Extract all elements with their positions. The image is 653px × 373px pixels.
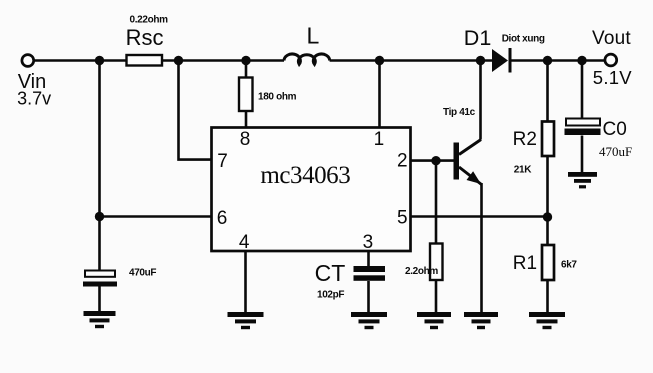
svg-text:5.1V: 5.1V: [593, 67, 632, 88]
svg-text:L: L: [307, 23, 320, 49]
svg-text:mc34063: mc34063: [260, 162, 350, 189]
svg-text:3: 3: [363, 232, 374, 253]
svg-text:1: 1: [374, 129, 385, 150]
svg-text:102pF: 102pF: [317, 290, 344, 301]
svg-text:6k7: 6k7: [561, 259, 577, 270]
svg-text:2.2ohm: 2.2ohm: [405, 266, 438, 277]
svg-text:C0: C0: [603, 119, 627, 140]
svg-text:Rsc: Rsc: [126, 25, 164, 50]
svg-text:2: 2: [397, 151, 408, 172]
svg-text:4: 4: [239, 232, 250, 253]
svg-text:470uF: 470uF: [129, 268, 156, 279]
svg-text:6: 6: [217, 208, 228, 229]
svg-text:Vout: Vout: [592, 28, 631, 49]
svg-text:0.22ohm: 0.22ohm: [130, 15, 169, 26]
svg-text:R1: R1: [513, 253, 537, 274]
svg-text:470uF: 470uF: [599, 144, 632, 159]
svg-text:180 ohm: 180 ohm: [258, 92, 297, 103]
svg-text:5: 5: [397, 208, 408, 229]
svg-text:3.7v: 3.7v: [17, 89, 51, 109]
svg-text:D1: D1: [464, 26, 491, 50]
svg-text:CT: CT: [315, 260, 346, 286]
svg-text:R2: R2: [513, 129, 537, 150]
svg-text:21K: 21K: [514, 164, 532, 175]
svg-text:8: 8: [240, 129, 251, 150]
svg-text:Tip 41c: Tip 41c: [443, 107, 476, 118]
svg-text:7: 7: [217, 151, 228, 172]
svg-text:Diot xung: Diot xung: [502, 34, 545, 45]
